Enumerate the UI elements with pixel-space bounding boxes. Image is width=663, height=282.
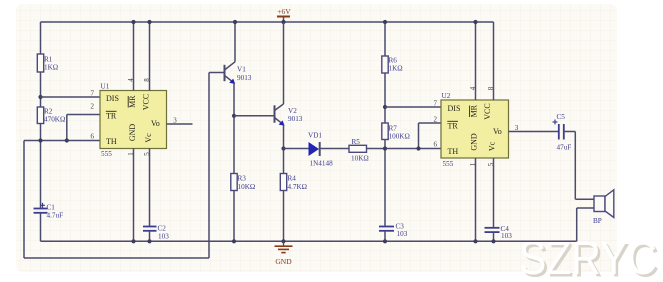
resistor R3 10KΩ xyxy=(231,174,255,192)
node junction R4 on rail xyxy=(281,239,285,243)
svg-text:4.7KΩ: 4.7KΩ xyxy=(288,183,308,191)
svg-text:10KΩ: 10KΩ xyxy=(351,155,369,163)
svg-text:6: 6 xyxy=(91,133,95,141)
svg-text:Vo: Vo xyxy=(493,127,502,136)
wire V1 collector to rail xyxy=(234,22,236,62)
speaker BP xyxy=(593,190,614,225)
wire speaker bottom terminal to rail xyxy=(577,208,594,241)
svg-text:GND: GND xyxy=(470,133,479,151)
svg-text:103: 103 xyxy=(158,233,169,241)
node junction pin8 U1 on rail xyxy=(147,20,151,24)
svg-text:6: 6 xyxy=(434,141,438,149)
capacitor C4 103 xyxy=(485,225,513,240)
node junction V2 emitter / diode wire xyxy=(281,146,285,150)
svg-text:Vc: Vc xyxy=(144,133,153,143)
wire R1 bottom to R2 top xyxy=(40,72,42,107)
svg-text:V2: V2 xyxy=(288,107,297,115)
transistor V2 9013 xyxy=(275,104,303,126)
power +6V xyxy=(277,7,291,22)
pin number 2 U2 xyxy=(434,116,438,124)
svg-text:VD1: VD1 xyxy=(308,132,322,140)
svg-text:MR: MR xyxy=(470,104,479,117)
pin name Vo U1 xyxy=(151,119,160,128)
wire U2 pin 1 GND to rail xyxy=(475,158,477,241)
wire U2 pin 8 from rail corner xyxy=(493,22,495,100)
wire C1 bottom to ground rail xyxy=(40,213,42,242)
capacitor C5 47uF xyxy=(553,113,572,152)
wire U1 pin 6 TH xyxy=(24,140,100,142)
wire R5 to U2 TH xyxy=(367,148,442,150)
pin name TH U1 xyxy=(106,137,117,146)
pin name GND U1 (rotated) xyxy=(128,124,137,142)
wire V1 emitter down to R3 and rail xyxy=(233,83,235,174)
pin number 1 U2 (rotated) xyxy=(469,162,477,166)
wire U2 pin 2 TR branch xyxy=(419,123,442,149)
wire C2 bottom to rail xyxy=(149,231,151,242)
wire R7 bottom through junction to C3 xyxy=(384,140,386,227)
svg-text:R4: R4 xyxy=(288,175,297,183)
svg-text:2: 2 xyxy=(91,103,95,111)
node junction TH-TR xyxy=(65,138,69,142)
svg-text:7: 7 xyxy=(91,90,95,98)
node junction R3 on rail xyxy=(232,239,236,243)
node junction pin4 U2 on rail xyxy=(473,20,477,24)
pin number 8 U1 (rotated) xyxy=(143,78,151,82)
pin name GND U2 (rotated) xyxy=(470,133,479,151)
pin name TR U2 xyxy=(447,121,458,130)
op-amp U2 555 body xyxy=(441,92,509,168)
node junction pin4 U1 on rail xyxy=(131,20,135,24)
wire U2 pin 3 Vo to C5 xyxy=(509,131,559,133)
svg-text:+6V: +6V xyxy=(277,7,291,16)
pin number 6 U2 xyxy=(434,141,438,149)
wire top +6V rail xyxy=(41,21,494,23)
watermark SZRYC xyxy=(519,231,660,282)
pin name TR U1 xyxy=(106,111,117,120)
resistor R4 4.7KΩ xyxy=(280,174,307,192)
svg-text:Vo: Vo xyxy=(151,119,160,128)
svg-text:TR: TR xyxy=(106,112,117,121)
svg-text:TR: TR xyxy=(448,122,459,131)
node junction V1 collector on rail xyxy=(233,20,237,24)
svg-text:7: 7 xyxy=(434,100,438,108)
node junction TR-TH U2 xyxy=(416,146,420,150)
node junction R5-R7 xyxy=(383,146,387,150)
svg-text:BP: BP xyxy=(593,217,602,225)
pin name Vc U2 (rotated) xyxy=(488,141,497,151)
node junction DIS U1 xyxy=(38,95,42,99)
node junction U1 GND on rail xyxy=(131,239,135,243)
wire U1 pin 7 DIS xyxy=(41,96,101,98)
svg-text:100KΩ: 100KΩ xyxy=(389,133,410,141)
wire U2 pin 7 DIS xyxy=(385,106,441,108)
wire R6 bottom to R7 top xyxy=(384,73,386,123)
svg-text:R3: R3 xyxy=(238,175,247,183)
node junction C4 on rail xyxy=(491,239,495,243)
pin number 2 U1 xyxy=(91,103,95,111)
svg-text:470KΩ: 470KΩ xyxy=(44,116,65,124)
pin name MR U2 (rotated) xyxy=(470,104,479,117)
wire R3 bottom to rail xyxy=(233,191,235,242)
pin name DIS U2 xyxy=(448,104,461,113)
node junction +6V on rail xyxy=(281,20,285,24)
svg-text:DIS: DIS xyxy=(106,94,119,103)
capacitor C2 103 xyxy=(143,225,169,241)
svg-text:10KΩ: 10KΩ xyxy=(238,183,256,191)
pin number 1 U1 (rotated) xyxy=(127,152,135,156)
wire U1 pin 4 to rail xyxy=(133,22,135,91)
node junction TH-R2 xyxy=(38,138,42,142)
svg-text:TH: TH xyxy=(448,147,459,156)
transistor V1 9013 xyxy=(209,62,252,84)
pin number 8 U2 (rotated) xyxy=(487,86,495,90)
ground GND symbol xyxy=(275,241,293,266)
wire C5 to speaker top terminal xyxy=(564,132,594,200)
svg-text:103: 103 xyxy=(397,230,408,238)
pin number 4 U2 (rotated) xyxy=(469,86,477,90)
pin number 5 U1 (rotated) xyxy=(143,152,151,156)
pin number 3 U1 xyxy=(173,117,177,125)
op-amp U1 555 body xyxy=(100,83,167,159)
capacitor C3 103 xyxy=(379,223,408,239)
svg-text:103: 103 xyxy=(501,232,512,240)
node junction C2 on rail xyxy=(147,239,151,243)
svg-text:VCC: VCC xyxy=(483,103,492,119)
pin name Vc U1 (rotated) xyxy=(144,133,153,143)
wire ground rail xyxy=(41,240,577,242)
svg-text:C2: C2 xyxy=(158,225,167,233)
pin name DIS U1 xyxy=(106,94,119,103)
wire R2 bottom through TH to C1 xyxy=(40,124,42,209)
wire U1 pin 5 to C2 xyxy=(149,149,151,227)
svg-text:C1: C1 xyxy=(47,204,56,212)
pin name VCC U2 (rotated) xyxy=(483,103,492,119)
svg-text:R6: R6 xyxy=(389,57,398,65)
resistor R7 100KΩ xyxy=(382,123,410,141)
svg-text:9013: 9013 xyxy=(288,115,303,123)
svg-text:GND: GND xyxy=(128,124,137,142)
svg-text:Vc: Vc xyxy=(488,141,497,151)
svg-text:R5: R5 xyxy=(352,138,361,146)
svg-text:4.7uF: 4.7uF xyxy=(47,212,64,220)
wire V2 base xyxy=(234,115,275,117)
pin number 6 U1 xyxy=(91,133,95,141)
wire U2 pin 5 to C4 xyxy=(493,158,495,228)
node junction DIS U2 xyxy=(383,105,387,109)
resistor R6 1KΩ xyxy=(382,56,403,73)
svg-text:VCC: VCC xyxy=(142,94,151,110)
svg-text:V1: V1 xyxy=(237,66,246,74)
resistor R1 1KΩ xyxy=(37,54,58,72)
svg-text:DIS: DIS xyxy=(448,104,461,113)
wire R6 top to rail xyxy=(384,22,386,56)
wire C4 bottom to rail xyxy=(493,232,495,241)
diode VD1 1N4148 xyxy=(308,132,333,168)
wire U1 pin 2 TR xyxy=(67,115,100,141)
svg-text:2: 2 xyxy=(434,116,438,124)
capacitor C1 4.7uF xyxy=(34,203,64,220)
wire diode cathode to R5 xyxy=(320,148,349,150)
resistor R5 10KΩ xyxy=(349,138,369,163)
node junction V2 base tap xyxy=(232,114,236,118)
svg-text:C5: C5 xyxy=(557,113,566,121)
wire C3 bottom to rail xyxy=(384,231,386,242)
pin number 7 U2 xyxy=(434,100,438,108)
svg-text:TH: TH xyxy=(106,137,117,146)
svg-text:R2: R2 xyxy=(44,108,53,116)
node junction U2 GND on rail xyxy=(473,239,477,243)
svg-text:GND: GND xyxy=(275,257,292,266)
node junction R6 on rail xyxy=(383,20,387,24)
wire U1 pin 1 GND to ground rail xyxy=(133,149,135,242)
pin name MR U1 (rotated) xyxy=(128,95,137,108)
wire left column top (rail to R1) xyxy=(40,22,42,54)
svg-text:1N4148: 1N4148 xyxy=(310,160,334,168)
pin name VCC U1 (rotated) xyxy=(142,94,151,110)
pin name TH U2 xyxy=(448,147,459,156)
svg-text:MR: MR xyxy=(128,95,137,108)
wire feedback bottom horizontal xyxy=(24,257,209,259)
svg-text:SZRYC: SZRYC xyxy=(519,231,657,282)
svg-text:R1: R1 xyxy=(44,56,53,64)
pin number 4 U1 (rotated) xyxy=(127,78,135,82)
svg-text:R7: R7 xyxy=(389,125,398,133)
pin name Vo U2 xyxy=(493,127,502,136)
wire feedback right vertical to V1 base xyxy=(208,73,210,259)
svg-text:47uF: 47uF xyxy=(557,144,572,152)
svg-text:1KΩ: 1KΩ xyxy=(389,65,403,73)
svg-text:U2: U2 xyxy=(442,92,451,100)
node junction C3 on rail xyxy=(383,239,387,243)
pin number 3 U2 xyxy=(515,124,519,132)
svg-text:1KΩ: 1KΩ xyxy=(44,64,58,72)
pin number 5 U2 (rotated) xyxy=(487,162,495,166)
wire V2 emitter down to R4 xyxy=(283,125,285,174)
wire diode anode xyxy=(284,148,309,150)
svg-text:555: 555 xyxy=(443,160,454,168)
wire R4 bottom to rail xyxy=(283,191,285,242)
pin number 7 U1 xyxy=(91,90,95,98)
wire U2 pin 4 to rail xyxy=(475,22,477,100)
wire U1 pin 3 Vo stub xyxy=(167,123,193,125)
svg-text:U1: U1 xyxy=(101,83,110,91)
wire feedback left vertical xyxy=(23,141,25,259)
resistor R2 470KΩ xyxy=(37,107,65,124)
svg-text:9013: 9013 xyxy=(237,74,252,82)
wire V2 collector to rail xyxy=(283,22,285,104)
svg-text:555: 555 xyxy=(101,150,112,158)
wire U1 pin 8 to rail xyxy=(149,22,151,91)
